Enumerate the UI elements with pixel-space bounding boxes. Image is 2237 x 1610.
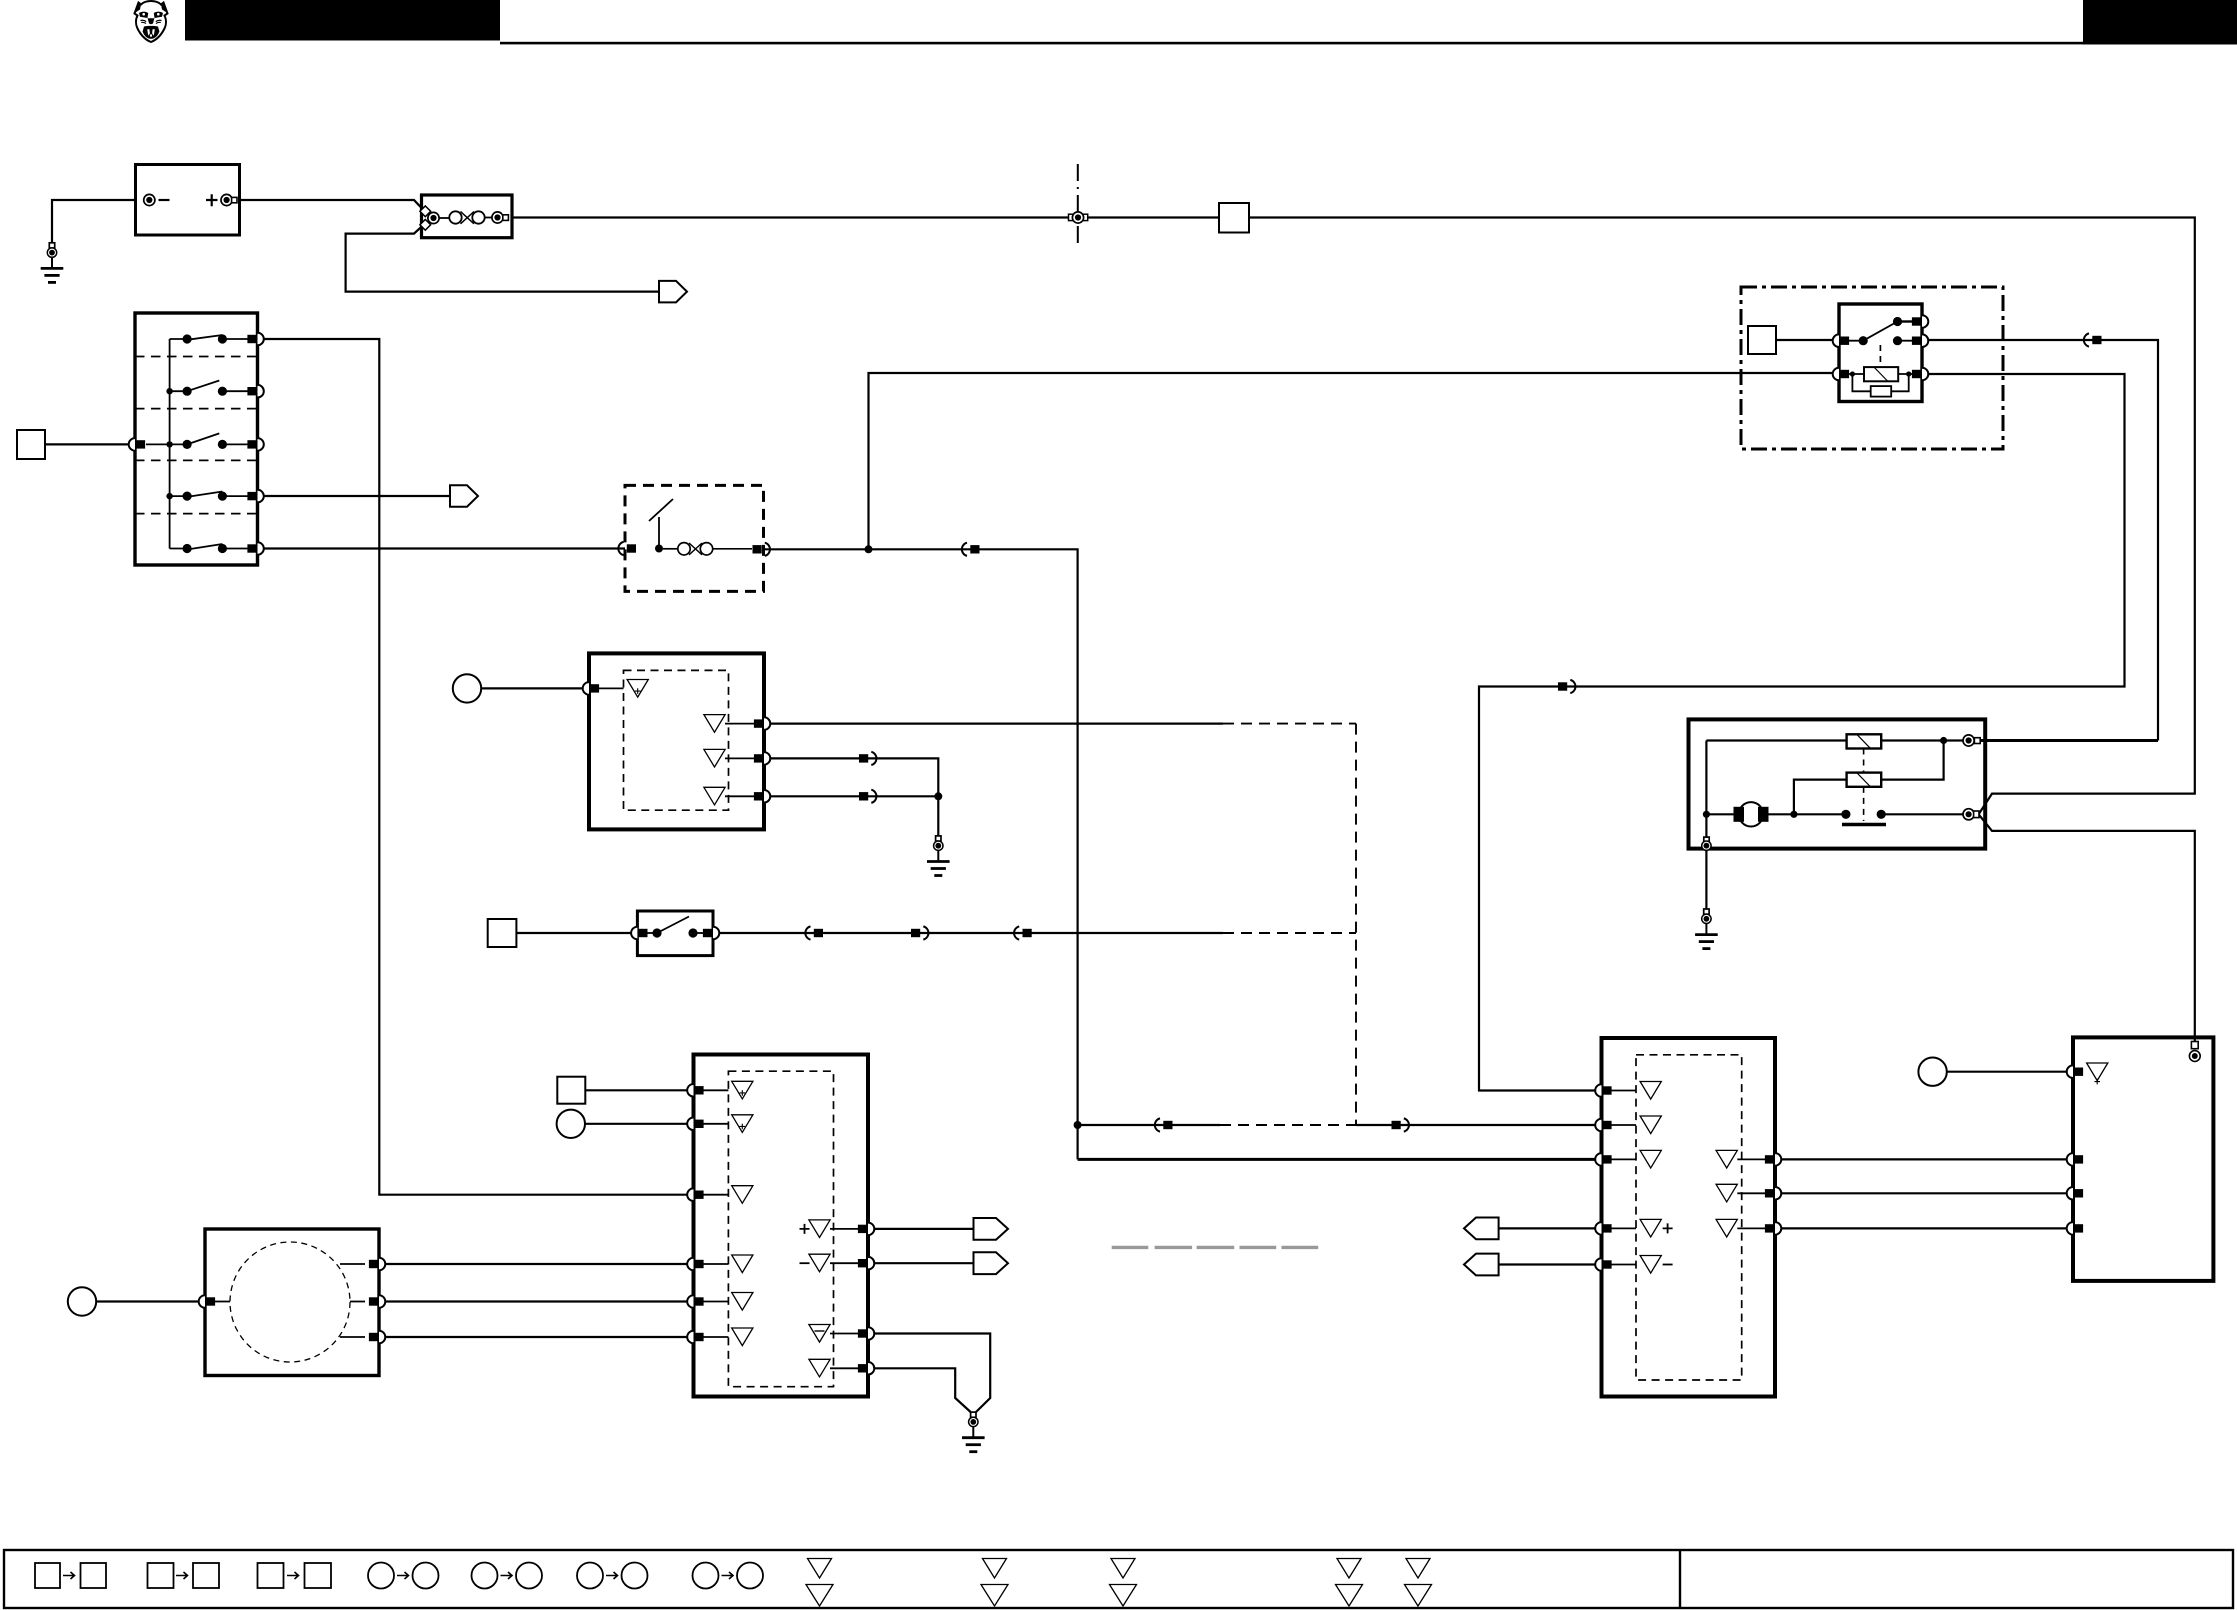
wire relay square to relay pin bbox=[1776, 339, 1839, 341]
resistor pack pin in3 bbox=[2067, 1187, 2083, 1200]
arrow connector off-page lower bbox=[659, 281, 687, 303]
fusible link fuse element bbox=[439, 211, 492, 224]
ignition switch common rail bbox=[169, 339, 171, 549]
amplifier triangle 4 bbox=[704, 787, 725, 805]
relay coil bbox=[1864, 367, 1898, 381]
distributor pin out3 bbox=[340, 1336, 365, 1338]
ignition switch pin row3 bbox=[247, 438, 263, 451]
distributor pin out2 bbox=[350, 1301, 365, 1303]
ECM box bbox=[694, 1055, 869, 1397]
ignition switch pin row2 bbox=[247, 385, 263, 398]
ignition switch row3 bbox=[146, 433, 249, 444]
connector on pin2 run male bbox=[1392, 1118, 1409, 1131]
pump case ground terminal bbox=[1704, 837, 1709, 842]
legend square pair 2 bbox=[148, 1563, 174, 1588]
wire ECM input square bbox=[585, 1089, 693, 1091]
pump resistor 2 bbox=[1847, 773, 1882, 787]
legend square pair 3 bbox=[258, 1563, 284, 1588]
ignition switch row4 bbox=[170, 492, 249, 497]
ECM right plus triangle bbox=[809, 1220, 830, 1238]
ECM input reference square bbox=[557, 1077, 585, 1104]
distributor left pin bbox=[199, 1295, 215, 1308]
arrow connector into right ECU pin4 bbox=[1464, 1218, 1499, 1240]
pump terminal bottom bbox=[1963, 809, 1974, 820]
legend triangle column 1 bbox=[806, 1559, 833, 1607]
relay pin 85 bbox=[1912, 368, 1928, 381]
ignition amplifier box bbox=[589, 653, 764, 829]
alternate wiring grey dashes bbox=[1112, 1246, 1319, 1249]
amplifier input circle bbox=[453, 674, 481, 702]
ECM pin out gnd1 bbox=[858, 1327, 874, 1340]
wire pump ground lead bbox=[1705, 850, 1707, 909]
wire generator out t3 bbox=[764, 758, 938, 796]
wire dashed alternates bbox=[1220, 1124, 1356, 1126]
connector brake run 2 bbox=[911, 926, 928, 939]
wire thick run to right ECU pin3 bbox=[1078, 1158, 1602, 1161]
wire right ECU to pump module row2 bbox=[1775, 1192, 2073, 1194]
amplifier triangle 1 bbox=[627, 680, 648, 698]
ignition switch row1 bbox=[170, 335, 249, 340]
connector on inertia-to-ECU run bbox=[962, 543, 980, 556]
legend circle pair 3 bbox=[577, 1563, 603, 1589]
ignition switch section dividers bbox=[135, 357, 258, 514]
ignition switch pin row4 bbox=[247, 490, 263, 503]
pump pressure contacts bbox=[1841, 810, 1850, 819]
ECM pin in3 bbox=[687, 1188, 703, 1201]
wire distributor out 2 bbox=[379, 1300, 694, 1302]
wire junction right to corner bbox=[869, 549, 1078, 1159]
junction at vertical to ECU pin2 bbox=[1074, 1121, 1082, 1129]
ECM pin out plus bbox=[858, 1223, 874, 1236]
relay resistor bypass bbox=[1852, 374, 1908, 391]
connector brake run 3 bbox=[1014, 926, 1032, 939]
connector amp out row2 bbox=[859, 752, 876, 765]
right ECU pin out1 bbox=[1765, 1153, 1781, 1166]
wire distributor out 1 bbox=[379, 1263, 694, 1265]
battery box bbox=[136, 165, 240, 236]
battery minus sign bbox=[159, 199, 170, 201]
relay pin 30 bbox=[1833, 334, 1849, 347]
connector on pin2 run female bbox=[1155, 1118, 1173, 1131]
brake switch reference square bbox=[488, 919, 517, 947]
right ECU pin out3 bbox=[1765, 1222, 1781, 1235]
battery negative terminal bbox=[144, 194, 155, 205]
ignition switch row2 bbox=[170, 381, 249, 392]
brake switch box bbox=[637, 911, 713, 956]
inertia switch fuse bbox=[663, 543, 752, 555]
wire relay coil right to right ECU pin1 bbox=[1479, 374, 2125, 1091]
junction inertia line bbox=[865, 545, 873, 553]
wire ignition row1 to ECM pin bbox=[258, 339, 694, 1195]
header rule bbox=[500, 42, 2237, 45]
wire ignition row5 to inertia switch bbox=[258, 547, 626, 549]
ignition switch row5 bbox=[170, 544, 249, 550]
wire junction to right ECU pin2 solid part1 bbox=[1078, 1124, 1220, 1126]
right ECU box bbox=[1602, 1038, 1776, 1397]
relay pin 87 bbox=[1912, 334, 1928, 347]
dash-dot splice line bbox=[1077, 164, 1079, 248]
right ECU left triangles bbox=[1640, 1082, 1661, 1100]
legend circle pair 2 bbox=[472, 1563, 498, 1589]
wire battery negative to ground bbox=[52, 200, 146, 243]
legend triangle column 4 bbox=[1336, 1559, 1363, 1607]
relay reference square bbox=[1748, 326, 1776, 354]
wire ECM plus output to arrow bbox=[868, 1228, 974, 1230]
amplifier triangle 3 bbox=[704, 749, 725, 767]
ground pump bbox=[1695, 909, 1718, 949]
ground amplifier bbox=[927, 836, 950, 876]
distributor input circle bbox=[68, 1287, 96, 1315]
connector square ignition feed bbox=[17, 430, 45, 459]
wire inertia switch output to junction bbox=[764, 548, 869, 550]
wire distributor out 3 bbox=[379, 1336, 694, 1338]
relay box bbox=[1839, 304, 1922, 402]
wire brake switch feed bbox=[516, 932, 637, 934]
ECM right triangle minus inside bbox=[809, 1325, 830, 1343]
relay pin 86 bbox=[1833, 368, 1849, 381]
arrow connector ignition row4 bbox=[450, 485, 478, 506]
distributor dashed rotor circle bbox=[230, 1242, 350, 1362]
legend circle pair 4 bbox=[693, 1563, 719, 1589]
resistor pack pin in4 bbox=[2067, 1222, 2083, 1235]
wire generator out t2 solid bbox=[764, 722, 1223, 724]
connector amp out row3 bbox=[859, 790, 876, 803]
connector brake run 1 bbox=[805, 926, 823, 939]
wire ignition switch feed from connector square bbox=[45, 443, 135, 445]
ECM pin in2 bbox=[687, 1118, 703, 1131]
wire junction up to relay coil left bbox=[869, 373, 1840, 549]
resistor pack top terminal bbox=[2191, 1042, 2198, 1049]
distributor pin out1 bbox=[340, 1263, 365, 1265]
wire battery positive to fusible link bbox=[240, 200, 431, 218]
arrow connector into right ECU pin5 bbox=[1464, 1254, 1499, 1276]
wire main bus lower branch to fuel pump resistor box bbox=[1979, 815, 2195, 1043]
battery positive terminal bbox=[221, 194, 232, 205]
arrow connector ECM minus bbox=[974, 1252, 1009, 1274]
wire right ECU to pump module row1 bbox=[1775, 1158, 2073, 1160]
legend bar bbox=[4, 1550, 2233, 1608]
fuel pump resistor pack box bbox=[2073, 1037, 2213, 1281]
pump resistor 1 bbox=[1847, 734, 1882, 748]
resistor pack triangle bbox=[2087, 1063, 2108, 1084]
wire ECM output to ground funnel right bbox=[868, 1334, 990, 1413]
ignition switch box bbox=[135, 313, 258, 565]
ignition switch pin row1 bbox=[247, 333, 263, 346]
wire generator input bbox=[481, 687, 589, 689]
right ECU pin in2 bbox=[1595, 1119, 1611, 1132]
inertia fuel cutoff switch box bbox=[625, 485, 764, 591]
legend triangle column 5 bbox=[1405, 1559, 1432, 1607]
inertia switch output terminal bbox=[753, 543, 770, 556]
wire arrow to right ECU pin5 bbox=[1499, 1263, 1602, 1265]
ECM pin out minus bbox=[858, 1257, 874, 1270]
header right black box bbox=[2083, 0, 2237, 44]
fusible link output terminal bbox=[492, 212, 503, 223]
wire ignition row4 to arrow connector bbox=[258, 495, 451, 497]
wire pump box internals top bbox=[1706, 739, 1846, 741]
amplifier pin out2 bbox=[754, 752, 770, 765]
wire generator out t4 to ground bbox=[764, 796, 938, 836]
battery plus sign bbox=[206, 194, 218, 206]
resistor pack pin in2 bbox=[2067, 1153, 2083, 1166]
wire arrow to right ECU pin4 bbox=[1499, 1227, 1602, 1229]
pump junction dots bbox=[1703, 811, 1710, 818]
resistor pack input circle bbox=[1918, 1058, 1946, 1086]
inertia switch input terminal bbox=[618, 542, 636, 555]
ECM right triangle 4 bbox=[809, 1359, 830, 1377]
wire ECM input circle bbox=[585, 1123, 694, 1125]
legend square pair 1 bbox=[35, 1563, 60, 1588]
fuel pump box bbox=[1689, 719, 1986, 848]
wire ECM output to ground funnel left bbox=[868, 1368, 971, 1412]
ECM left triangles bbox=[732, 1081, 753, 1099]
connector on coil return run bbox=[1558, 680, 1575, 693]
right ECU right triangles bbox=[1716, 1150, 1737, 1168]
ECM pin in1 bbox=[687, 1084, 703, 1097]
right ECU pin out2 bbox=[1765, 1187, 1781, 1200]
resistor pack pin in1 bbox=[2067, 1065, 2083, 1078]
right ECU pin in4 bbox=[1595, 1222, 1611, 1235]
arrow connector ECM plus bbox=[974, 1218, 1009, 1240]
pump terminal top bbox=[1963, 735, 1974, 746]
legend divider bbox=[1679, 1550, 1681, 1608]
ignition switch left pin row3 bbox=[129, 438, 145, 451]
ECM inner dashed box bbox=[728, 1071, 833, 1387]
brake switch contacts bbox=[646, 932, 657, 934]
right ECU pin in1 bbox=[1595, 1084, 1611, 1097]
fusible link box bbox=[422, 195, 513, 238]
Jaguar growler logo bbox=[135, 1, 168, 42]
wire relay middle row to pump top terminal bbox=[1922, 340, 2158, 741]
right ECU inner dashed box bbox=[1636, 1055, 1742, 1380]
wire brake switch out bbox=[713, 932, 1223, 934]
distributor box bbox=[205, 1229, 379, 1376]
ECM pin out gnd2 bbox=[858, 1362, 874, 1375]
wire right ECU to pump module row3 bbox=[1775, 1227, 2073, 1229]
pump actuator dashed link bbox=[1863, 749, 1865, 773]
amplifier input pin bbox=[583, 682, 599, 695]
connector on relay output run bbox=[2084, 333, 2102, 346]
header title bar bbox=[185, 0, 500, 41]
relay actuator dashed link bbox=[1879, 345, 1881, 367]
relay switch lever bbox=[1863, 322, 1897, 341]
bus inline connector bbox=[1069, 214, 1075, 220]
wire ECM minus output to arrow bbox=[868, 1262, 974, 1264]
legend triangle column 3 bbox=[1110, 1559, 1137, 1607]
relay pin 87a bbox=[1912, 315, 1928, 328]
inertia switch lever bbox=[649, 499, 673, 549]
square reference box on bus bbox=[1219, 203, 1249, 233]
ECM input circle bbox=[557, 1110, 585, 1138]
amplifier inner dashed box bbox=[624, 670, 729, 810]
wire main bus from fusible link to right edge and down bbox=[512, 218, 2195, 815]
ECM pin in5 bbox=[687, 1295, 703, 1308]
ECM pin in6 bbox=[687, 1331, 703, 1344]
ground ECM bbox=[962, 1412, 985, 1452]
amplifier pin out3 bbox=[754, 790, 770, 803]
junction amp ground bbox=[934, 792, 942, 800]
amplifier triangle 2 bbox=[704, 715, 725, 733]
ECM pin in4 bbox=[687, 1258, 703, 1271]
pump motor bbox=[1739, 802, 1763, 826]
amplifier pin out1 bbox=[754, 717, 770, 730]
ECM right minus triangle bbox=[809, 1254, 830, 1272]
relay dash-dot boundary box bbox=[1741, 287, 2003, 449]
ignition switch pin row5 bbox=[247, 542, 263, 555]
ground battery bbox=[41, 243, 64, 283]
wire pump module circle input bbox=[1947, 1071, 2073, 1073]
fusible link input terminal bbox=[428, 212, 439, 223]
legend circle pair 1 bbox=[368, 1563, 394, 1589]
wire distributor input circle bbox=[97, 1300, 206, 1302]
wire fusible link lower branch bbox=[346, 218, 659, 292]
right ECU pin in5 bbox=[1595, 1258, 1611, 1271]
fusible link input diamonds bbox=[420, 206, 431, 217]
relay contacts bbox=[1893, 317, 1902, 326]
right ECU pin in3 bbox=[1595, 1153, 1611, 1166]
legend triangle column 2 bbox=[981, 1559, 1008, 1607]
